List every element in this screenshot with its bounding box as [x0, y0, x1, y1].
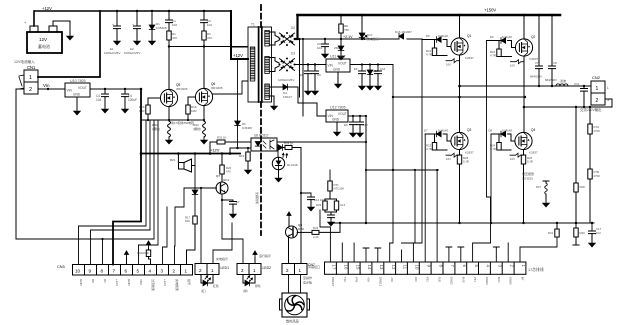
svg-text:+2.1V: +2.1V [343, 35, 353, 39]
svg-text:BF: BF [521, 277, 525, 281]
gate network Q1 : D5 R21 Z1 [422, 34, 460, 67]
bridge rectifier D3 [269, 52, 295, 83]
wire opto right pins [277, 147, 278, 149]
svg-text:684/630V: 684/630V [545, 78, 557, 82]
capacitor E8 [361, 65, 363, 72]
LED LED2 green [243, 275, 261, 294]
ground E5 [305, 89, 311, 95]
svg-text:+12V: +12V [233, 53, 243, 58]
svg-text:BZ1: BZ1 [170, 158, 176, 162]
zener ZD2 [369, 65, 371, 71]
wire +12V to CN1 pin1 [38, 11, 100, 77]
capacitor C8 684/630V [545, 14, 557, 86]
connector CN1 [14, 59, 38, 94]
svg-text:R34 1K: R34 1K [284, 142, 293, 146]
zener ZD1 [334, 39, 344, 54]
svg-text:C11: C11 [574, 82, 580, 86]
resistor R16 gate Q6 [186, 97, 198, 120]
svg-text:C6: C6 [317, 73, 321, 77]
CN3 pin labels [79, 279, 192, 291]
regulator U11 7812 [326, 55, 350, 73]
ground battery [67, 34, 73, 40]
resistor R27 [536, 181, 549, 207]
svg-text:VOUT: VOUT [338, 62, 347, 66]
svg-text:684/630V: 684/630V [530, 75, 542, 79]
wire cell7 stub [446, 247, 452, 262]
ground RS2 [201, 138, 207, 144]
svg-text:Vin: Vin [43, 83, 50, 88]
capacitor E1 1000uF/25V [104, 10, 121, 55]
svg-text:CN7: CN7 [308, 263, 315, 267]
svg-text:4.7R: 4.7R [426, 53, 432, 57]
svg-text:6: 6 [125, 268, 128, 273]
zener ZD5b [192, 190, 198, 195]
svg-text:运行指示: 运行指示 [259, 253, 271, 258]
svg-text:+5V: +5V [367, 277, 371, 282]
resistor R8 75K [339, 14, 353, 39]
svg-text:GND3: GND3 [485, 277, 489, 285]
ground C4 [102, 107, 108, 113]
transistor Q7 9013 [216, 174, 230, 194]
wire opto left pins [225, 141, 251, 143]
wire Q8 emitter to fan [288, 238, 290, 264]
svg-text:U10 7805: U10 7805 [70, 79, 86, 83]
resistor R28 [573, 106, 585, 245]
transistor Q5 IRF3205 [160, 83, 187, 107]
svg-text:100uF: 100uF [128, 98, 137, 102]
wire +12V thick distribution [113, 89, 141, 265]
svg-text:VIN: VIN [67, 89, 73, 93]
diode D1 1N5408 [149, 10, 167, 45]
svg-text:16V: 16V [510, 64, 515, 68]
optocoupler U8 PC817 [251, 134, 277, 152]
svg-text:D2: D2 [291, 26, 295, 30]
gate network Q3 : D7 R23 Z3 [424, 129, 460, 162]
svg-text:CN3: CN3 [57, 265, 65, 269]
svg-text:TX0: TX0 [343, 277, 347, 283]
svg-text:C10: C10 [362, 123, 368, 127]
svg-text:75K: 75K [344, 28, 349, 32]
svg-text:3UE: 3UE [438, 277, 442, 283]
capacitor E7 [221, 199, 240, 218]
svg-text:(红): (红) [201, 289, 206, 293]
svg-text:15: 15 [355, 265, 360, 270]
svg-text:1N5408: 1N5408 [156, 26, 167, 30]
ground C10 [357, 131, 363, 137]
capacitor C16 [377, 65, 379, 72]
svg-text:GND0: GND0 [509, 277, 513, 285]
svg-text:光耦隔离: 光耦隔离 [255, 192, 260, 204]
svg-text:(绿): (绿) [243, 289, 248, 293]
svg-text:102: 102 [172, 23, 177, 27]
svg-text:0.1R: 0.1R [527, 160, 533, 164]
transformer T1 body [248, 23, 272, 103]
svg-text:1: 1 [596, 86, 599, 92]
transistor Q2 K2837 [515, 35, 538, 61]
svg-text:信号: 信号 [187, 279, 192, 285]
svg-text:2.2K: 2.2K [313, 235, 319, 239]
LED D19 indicator [272, 152, 298, 170]
svg-text:NTC10K: NTC10K [334, 187, 345, 191]
svg-text:16V: 16V [446, 157, 451, 161]
wire tall stub 415 [402, 170, 416, 243]
svg-text:过流检测: 过流检测 [151, 279, 156, 291]
svg-text:10: 10 [75, 268, 81, 273]
svg-text:1N4148: 1N4148 [438, 129, 448, 133]
svg-text:LED1: LED1 [221, 266, 230, 270]
transistor Q4 K2837 [515, 128, 538, 155]
svg-text:100Ω/2W: 100Ω/2W [137, 251, 149, 255]
svg-text:R19: R19 [239, 154, 245, 158]
svg-text:R29: R29 [316, 203, 322, 207]
svg-text:470: 470 [226, 170, 231, 174]
divider R7A R7B [588, 106, 600, 223]
svg-text:GND: GND [333, 68, 341, 72]
svg-text:+12V: +12V [163, 279, 167, 286]
svg-text:4: 4 [149, 268, 152, 273]
wire Q8 collector supply [288, 219, 290, 226]
connector CN5 run LED [237, 264, 271, 275]
buzzer BZ1 [170, 152, 196, 172]
connector CN3 10pin [57, 265, 193, 276]
svg-text:8: 8 [101, 268, 104, 273]
svg-text:E8: E8 [354, 67, 358, 71]
svg-text:E6: E6 [344, 123, 348, 127]
diode D16 [395, 30, 412, 39]
bridge rectifier D2 [269, 26, 295, 46]
svg-text:Q4: Q4 [531, 128, 535, 132]
resistor R17 [185, 216, 197, 265]
svg-text:Q1: Q1 [467, 34, 471, 38]
wire Q1 source to Q3 drain [459, 55, 461, 132]
wire U12 gnd [336, 122, 338, 130]
svg-text:1000uF/25V: 1000uF/25V [124, 51, 140, 55]
svg-text:VBA: VBA [139, 279, 143, 285]
wire opto out vertical [300, 148, 302, 264]
svg-text:GND: GND [127, 279, 131, 287]
svg-text:16V: 16V [446, 63, 451, 67]
ground E6 [350, 131, 356, 137]
svg-text:散热风扇: 散热风扇 [286, 319, 299, 324]
svg-text:0.1R: 0.1R [463, 160, 469, 164]
svg-text:绿色: 绿色 [255, 284, 261, 288]
resistor R19 [239, 147, 251, 174]
svg-text:2: 2 [596, 98, 599, 104]
svg-text:10: 10 [415, 265, 420, 270]
svg-text:D16 1N4007: D16 1N4007 [395, 30, 412, 34]
svg-text:充电指示: 充电指示 [216, 256, 228, 261]
wire +5V distribution [277, 116, 438, 223]
svg-text:D5: D5 [426, 34, 430, 38]
regulator U10 7805 [65, 79, 90, 97]
resistor R15 gate Q5 [139, 98, 160, 120]
transformer secondary winding W2 [265, 57, 270, 74]
svg-text:10R: 10R [139, 109, 145, 113]
supply arrow CN5 [254, 258, 256, 264]
connector CN4 charge LED [195, 256, 229, 275]
svg-text:8050: 8050 [298, 227, 305, 231]
svg-text:2: 2 [199, 268, 202, 273]
wire mid vertical [436, 170, 438, 262]
wire gate feed Q1 [413, 40, 422, 263]
wire control bus [331, 222, 594, 224]
shunt RS2 [193, 121, 206, 138]
svg-text:(裸线): (裸线) [193, 126, 201, 131]
capacitor E5 [300, 65, 312, 90]
svg-text:K2837: K2837 [529, 151, 538, 155]
svg-text:Q3: Q3 [467, 128, 471, 132]
wire fan connector down [289, 275, 301, 294]
wire control feed y97 [393, 96, 525, 98]
svg-text:L: L [607, 86, 609, 90]
svg-text:16: 16 [344, 265, 349, 270]
NTC network RT1 [316, 170, 346, 226]
svg-text:C12: C12 [340, 203, 346, 207]
svg-text:FAN/CT: FAN/CT [331, 277, 335, 287]
svg-text:C16: C16 [380, 67, 386, 71]
svg-text:10R: 10R [191, 109, 197, 113]
wire gate feed Q2 [473, 41, 491, 263]
svg-text:103: 103 [596, 231, 601, 235]
svg-text:SG3525: SG3525 [522, 177, 533, 181]
svg-text:GND: GND [332, 118, 340, 122]
svg-text:47K: 47K [207, 36, 212, 40]
wire Q1 drain [459, 15, 461, 38]
capacitor E6 470uF [344, 116, 357, 131]
wire Q7 emitter [222, 194, 243, 264]
svg-text:1: 1 [211, 268, 214, 273]
diode D4 FR107 aux [269, 84, 326, 116]
svg-text:4.7R: 4.7R [490, 54, 496, 58]
svg-text:4.7R: 4.7R [426, 147, 432, 151]
svg-text:9: 9 [89, 268, 92, 273]
svg-text:K2837: K2837 [465, 56, 474, 60]
svg-text:C7: C7 [535, 61, 539, 65]
svg-text:+12V: +12V [115, 279, 119, 286]
ground C6 [312, 89, 318, 95]
svg-text:R33: R33 [313, 226, 319, 230]
svg-text:+150V: +150V [484, 8, 496, 13]
svg-text:2: 2 [286, 268, 289, 273]
svg-text:C8: C8 [553, 61, 557, 65]
svg-text:270K: 270K [594, 174, 601, 178]
svg-text:R31: R31 [548, 231, 554, 235]
wire primary bottom end [213, 81, 248, 94]
svg-text:充电检测: 充电检测 [175, 279, 180, 291]
svg-text:T1: T1 [251, 23, 255, 27]
svg-text:低压报警: 低压报警 [522, 171, 534, 176]
wire +12V top rail [35, 10, 231, 12]
wire Q7 base [175, 187, 217, 265]
svg-text:D7: D7 [424, 129, 428, 133]
ground C9 [322, 52, 328, 58]
svg-text:1000uF/25V: 1000uF/25V [278, 78, 294, 82]
wire gate feed Q3 [424, 134, 426, 262]
svg-text:GND13: GND13 [378, 277, 382, 287]
transformer secondary winding W1 [265, 31, 270, 47]
connector CN7 17pin [308, 262, 526, 274]
svg-text:LED2: LED2 [263, 266, 272, 270]
wire pin3 [163, 207, 168, 265]
svg-text:U12 7805: U12 7805 [330, 106, 346, 110]
svg-text:红色: 红色 [213, 284, 219, 288]
svg-text:104: 104 [96, 98, 102, 102]
svg-text:至操作: 至操作 [303, 275, 312, 280]
wire battery minus [53, 21, 70, 34]
wire +150V rail [298, 14, 561, 17]
svg-text:7: 7 [450, 265, 455, 268]
gate network Q2 : D6 R22 Z2 [487, 35, 525, 68]
svg-text:2: 2 [29, 87, 32, 93]
svg-text:GND: GND [73, 93, 81, 97]
ground U10 [74, 109, 80, 115]
svg-text:13: 13 [379, 265, 384, 270]
svg-text:16V: 16V [510, 157, 515, 161]
svg-text:IRF3205: IRF3205 [211, 86, 223, 90]
svg-text:Q7: Q7 [216, 174, 220, 178]
wire LED D19 down [278, 170, 280, 176]
svg-text:D1: D1 [103, 279, 107, 283]
LED LED1 red [201, 275, 219, 294]
svg-text:2: 2 [241, 268, 244, 273]
ground RS1 [166, 138, 172, 144]
wire +12V drop to transformer tap [231, 11, 248, 59]
diode D9 1N5408 [237, 59, 239, 121]
LED D17 charge indicator [359, 14, 379, 41]
svg-text:ZD1: ZD1 [334, 46, 340, 50]
node Vin [38, 88, 65, 90]
svg-text:2: 2 [173, 268, 176, 273]
wire bridge D2 + to HV rail [295, 15, 298, 39]
regulator U12 7805 [326, 106, 348, 123]
svg-text:1: 1 [29, 75, 32, 81]
svg-text:3: 3 [161, 268, 164, 273]
svg-text:交流220V输出: 交流220V输出 [580, 107, 602, 112]
wire U12 out [348, 115, 366, 117]
svg-text:1N4148: 1N4148 [438, 34, 448, 38]
svg-text:1: 1 [185, 268, 188, 273]
wire battery plus to rail [33, 11, 35, 26]
CN7 pin labels [331, 277, 525, 287]
transistor Q8 8050 fan driver [286, 223, 305, 238]
svg-text:YFB: YFB [355, 277, 359, 283]
isolation dashed line [260, 5, 262, 235]
wire Q7 collector + resistor R20 470 [220, 152, 232, 182]
snubber C2/R2 on Q6 drain [201, 10, 213, 88]
ground E4 [122, 107, 128, 113]
svg-text:11: 11 [403, 265, 408, 270]
svg-text:CN2: CN2 [592, 75, 601, 80]
ground ZD1 [338, 54, 344, 60]
svg-text:E7: E7 [236, 200, 240, 204]
svg-text:102: 102 [207, 23, 212, 27]
svg-text:充电指示: 充电指示 [367, 36, 379, 41]
capacitor C9 104 [317, 39, 329, 52]
resistor R25 source Q3 [457, 150, 469, 223]
svg-text:7: 7 [113, 268, 116, 273]
wire Q5 source [168, 107, 170, 121]
capacitor C10 104 [357, 116, 368, 131]
wire CN7 pin stubs [320, 210, 330, 262]
wire CN4 up [213, 223, 232, 264]
capacitor C6 [312, 65, 322, 90]
svg-text:+12V: +12V [210, 148, 220, 153]
svg-text:+: + [24, 20, 27, 25]
svg-text:Y52: Y52 [426, 277, 430, 282]
gate network Q4 : D8 R24 Z4 [489, 129, 524, 162]
svg-text:R27: R27 [536, 185, 542, 189]
svg-text:R32 1K: R32 1K [217, 136, 226, 140]
svg-text:17芯排线: 17芯排线 [528, 267, 544, 272]
wire AC output N [524, 99, 612, 107]
svg-text:Q2: Q2 [531, 35, 535, 39]
svg-text:R30: R30 [580, 231, 586, 235]
svg-text:12: 12 [391, 265, 396, 270]
capacitor C4 104 [96, 89, 109, 107]
svg-text:D3: D3 [291, 52, 295, 56]
svg-text:5: 5 [137, 268, 140, 273]
wire bundle to CN3 [79, 120, 147, 265]
transistor Q6 IRF3205 [195, 82, 222, 106]
supply arrow pin6 [126, 258, 128, 265]
svg-text:+: + [112, 23, 114, 27]
svg-text:D0: D0 [91, 279, 95, 283]
svg-text:VOUT: VOUT [78, 86, 87, 90]
svg-text:D8: D8 [489, 129, 493, 133]
transformer secondary winding W3 [265, 84, 270, 100]
svg-text:GND2: GND2 [449, 277, 453, 285]
wire primary top end [231, 46, 248, 48]
svg-text:U8 PC817: U8 PC817 [254, 134, 269, 138]
wire U11 gnd [337, 72, 339, 82]
svg-text:CN1: CN1 [27, 65, 36, 70]
wire W3 bottom ground [269, 96, 274, 104]
svg-text:RL4148: RL4148 [287, 163, 298, 167]
connector CN6 fan [282, 264, 320, 275]
wire AC output L [460, 85, 592, 87]
svg-text:1000uF/25V: 1000uF/25V [104, 51, 120, 55]
svg-text:1N5408: 1N5408 [242, 126, 252, 130]
fan FAN1 [280, 293, 310, 324]
svg-text:1: 1 [253, 268, 256, 273]
connector CN2 AC out [580, 75, 610, 112]
svg-text:12V: 12V [39, 37, 47, 42]
resistor R26 source Q4 [521, 150, 533, 223]
snubber C1/R1 on Q5 drain [166, 10, 178, 89]
transistor Q3 K2837 [451, 128, 474, 155]
svg-text:GND: GND [79, 279, 83, 287]
svg-text:12V电池输入: 12V电池输入 [14, 59, 35, 64]
svg-text:U11 7812: U11 7812 [330, 55, 345, 59]
svg-text:+5V: +5V [390, 277, 394, 282]
capacitor C7 684/630V [530, 14, 543, 86]
wire Q2 drain [523, 15, 525, 39]
wire CN1 pin2 return rail [16, 89, 154, 239]
svg-text:IRF3205: IRF3205 [176, 87, 188, 91]
svg-text:Y51: Y51 [473, 277, 477, 282]
svg-text:1: 1 [299, 268, 302, 273]
wire sense RC [556, 223, 558, 229]
wire U10 gnd [76, 97, 78, 109]
svg-text:VOUT: VOUT [338, 112, 347, 116]
svg-text:1N4148: 1N4148 [502, 129, 512, 133]
svg-text:(裸线): (裸线) [152, 126, 160, 131]
capacitor C17 [589, 223, 602, 247]
svg-text:17: 17 [332, 265, 337, 270]
transistor Q1 K2837 [451, 34, 474, 60]
wire Q6 source [203, 106, 205, 121]
wire U11 aux feed down [390, 65, 393, 244]
